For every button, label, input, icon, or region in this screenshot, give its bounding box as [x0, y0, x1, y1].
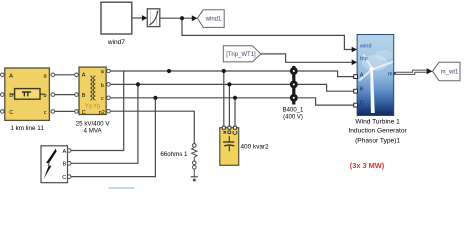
svg-text:(Phasor Type)1: (Phasor Type)1 [355, 137, 400, 144]
line11 pin a [51, 73, 55, 77]
cap icon glyphs [224, 131, 237, 135]
m output double line [394, 70, 428, 75]
wire wind7 to saturation [55, 18, 356, 177]
svg-text:C: C [82, 110, 86, 116]
svg-text:Induction Generator: Induction Generator [348, 128, 407, 135]
fault pin C [67, 175, 71, 179]
junction wind signal branch [180, 16, 184, 20]
wire fault A drop [71, 71, 124, 151]
line11 pin C [1, 110, 5, 114]
capacitor symbol [223, 136, 234, 151]
turbine blades [358, 54, 393, 81]
ground [193, 169, 195, 177]
line11 pin b [51, 93, 55, 97]
svg-text:66ohms 1: 66ohms 1 [160, 151, 188, 158]
svg-text:B: B [82, 93, 86, 99]
fault pin A [67, 149, 71, 153]
wire line11 to transformer phase B [55, 94, 75, 96]
svg-text:400 kvar2: 400 kvar2 [241, 144, 270, 151]
transformer pin c [107, 96, 111, 100]
wire capacitor phase b drop [228, 84, 230, 127]
goto tag m_wt1 [433, 62, 461, 80]
resistor 66ohms1 zigzag [192, 147, 197, 157]
wire line11 to transformer phase C [55, 110, 75, 112]
line11 pin A [1, 73, 5, 77]
wire fault B drop [71, 84, 138, 163]
wire capacitor phase a drop [223, 71, 225, 128]
wire line11 to transformer phase A [55, 74, 75, 76]
arrowhead into wind1 [192, 15, 198, 21]
from tag Trip_WT1 [223, 46, 260, 62]
svg-text:C: C [62, 175, 66, 181]
svg-text:A: A [360, 73, 364, 79]
wire trip from Trip_WT1 [261, 54, 353, 62]
svg-text:b: b [43, 93, 46, 99]
svg-text:A: A [82, 72, 86, 78]
svg-text:Wind Turbine 1: Wind Turbine 1 [355, 119, 400, 126]
wire bus line a [110, 71, 355, 77]
svg-text:25 kV/400 V: 25 kV/400 V [76, 120, 111, 127]
svg-text:wind7: wind7 [107, 39, 125, 46]
wire bus line b [110, 84, 355, 91]
svg-text:n2: n2 [99, 110, 105, 116]
arrowhead into saturation [142, 15, 147, 21]
transformer pin n2 [107, 109, 111, 113]
transformer pin b [107, 83, 111, 87]
svg-text:B: B [63, 162, 67, 168]
svg-text:wind1: wind1 [205, 17, 222, 23]
block transformer 25kV/400V [76, 67, 111, 134]
transformer pin a [107, 69, 111, 73]
block saturation curve [147, 9, 160, 27]
junction phase b capacitor tap [227, 82, 231, 86]
svg-text:Yg Yg: Yg Yg [85, 104, 100, 110]
transformer pin C [75, 110, 79, 114]
svg-text:trip: trip [360, 56, 368, 62]
junction phase c capacitor tap [233, 96, 237, 100]
transformer pin A [75, 73, 79, 77]
junction phase a capacitor tap [222, 69, 226, 73]
pi symbol [22, 92, 31, 96]
svg-text:A: A [9, 73, 13, 79]
line11 pin c [51, 110, 55, 114]
junction phase b fault tap [136, 82, 140, 86]
bus B400_1 phase b connector [291, 82, 296, 87]
transformer pin B [75, 93, 79, 97]
winding primary [90, 76, 92, 100]
svg-text:m: m [388, 71, 393, 77]
ground pin circle [193, 165, 197, 169]
svg-text:A: A [63, 149, 67, 155]
fault pin B [67, 162, 71, 166]
wire resistor to bottom pin [193, 157, 195, 161]
junction phase a node 1 [167, 69, 171, 73]
goto tag wind1 [197, 10, 224, 28]
lightning bolt [44, 149, 57, 180]
svg-text:C: C [360, 100, 364, 106]
svg-text:(400 V): (400 V) [283, 114, 303, 120]
wire bus line c [110, 98, 355, 105]
junction phase c fault tap [153, 96, 157, 100]
svg-text:4 MVA: 4 MVA [84, 128, 103, 135]
wire fault C drop [71, 98, 156, 177]
wire wind branch [182, 18, 353, 49]
block wind7 source [101, 2, 132, 46]
svg-text:1 km line 11: 1 km line 11 [10, 125, 44, 132]
wire saturation to wind1 goto [160, 17, 193, 19]
svg-text:m_wt1: m_wt1 [441, 70, 459, 76]
winding secondary [93, 76, 95, 100]
svg-text:B: B [360, 87, 364, 93]
svg-text:[Trip_WT1]: [Trip_WT1] [226, 52, 256, 58]
svg-text:C: C [9, 110, 13, 116]
wire n2 to resistor [110, 111, 194, 143]
svg-text:wind: wind [359, 44, 372, 50]
wire capacitor phase c drop [234, 98, 236, 128]
turbine tower [370, 69, 375, 113]
svg-text:c: c [101, 96, 104, 102]
port squares A B C [354, 75, 358, 107]
svg-text:c: c [44, 110, 47, 116]
bus B400_1 phase c connector [291, 95, 296, 100]
annotation light blue line [109, 187, 135, 189]
cap top port squares [222, 126, 236, 129]
block 400 kvar capacitor [220, 126, 269, 165]
arrowhead into m_wt1 [427, 68, 433, 74]
svg-text:(3x 3 MW): (3x 3 MW) [350, 161, 385, 170]
block wind turbine [348, 35, 407, 171]
block 1 km line 11 [5, 68, 50, 132]
svg-text:B: B [9, 93, 13, 99]
bus B400_1 phase a connector [291, 69, 296, 74]
bus bar B400_1 vertical bar [292, 66, 295, 105]
svg-text:b: b [101, 83, 104, 89]
svg-text:B400_1: B400_1 [283, 108, 304, 114]
line11 pin B [1, 93, 5, 97]
block three-phase fault [41, 146, 68, 183]
input arrowheads wind trip [352, 47, 357, 53]
resistor 66ohms1 top pin [193, 144, 197, 148]
resistor 66ohms1 bottom pin [193, 161, 197, 165]
